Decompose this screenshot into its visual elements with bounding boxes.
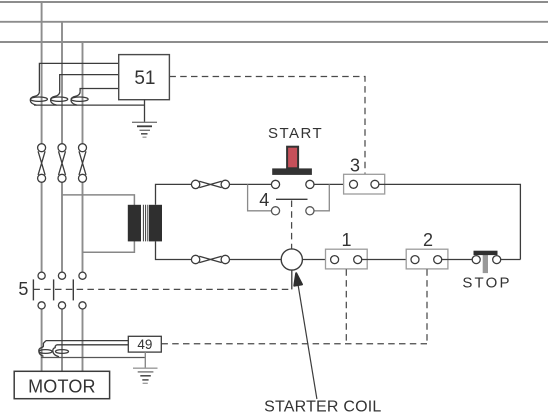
bus A (top horizontal bus)	[0, 1, 548, 3]
contact 3 terminals	[350, 180, 379, 188]
contact 4 branch wiring (seal-in)	[248, 184, 330, 210]
pushbutton STOP cap	[474, 251, 498, 255]
wire (dashed, contact 1 to relay 49 trip link)	[345, 269, 347, 343]
wire (control transformer primary lead, top)	[62, 195, 134, 205]
wire	[314, 183, 349, 185]
CT2 secondary lead to relay 51	[60, 75, 119, 92]
phase B conductor	[61, 22, 63, 372]
CT2 (current transformer, phase B)	[51, 92, 68, 105]
CT3 secondary lead to relay 51	[80, 89, 119, 92]
wire (dashed, contact 2 to relay 49 trip link)	[426, 269, 428, 343]
contact 2 box	[406, 249, 448, 269]
contact 2 terminals	[411, 256, 442, 264]
wire (annotation arrow shaft)	[298, 285, 317, 399]
svg-text:51: 51	[134, 68, 155, 89]
pushbutton STOP contacts	[472, 256, 501, 264]
disconnect contact 5 phase B	[54, 272, 66, 309]
svg-text:1: 1	[341, 230, 351, 250]
wire (dashed trip link from relay 51 to contact 3)	[169, 77, 365, 174]
wire (CT4 lead to relay 49)	[46, 340, 128, 342]
fuse F1 (top control wire, circle-X-circle)	[191, 180, 229, 188]
breaker contact phase C	[79, 144, 87, 183]
CT3 (current transformer, phase C)	[71, 92, 88, 105]
svg-text:5: 5	[18, 279, 28, 299]
phase C conductor	[82, 42, 84, 371]
wire (secondary top lead to control bus)	[156, 184, 192, 204]
ground (below relay 51)	[132, 100, 157, 138]
wire	[230, 183, 272, 185]
phase A conductor	[41, 2, 43, 371]
wire (dashed link from contacts 5 to coil return)	[33, 288, 291, 290]
svg-text:3: 3	[350, 155, 360, 175]
disconnect contact 5 phase A	[33, 272, 45, 309]
bus B	[0, 21, 548, 23]
svg-text:STARTER COIL: STARTER COIL	[264, 399, 381, 413]
relay U1 "51" (overcurrent relay)	[119, 55, 170, 100]
svg-text:MOTOR: MOTOR	[28, 377, 96, 397]
contact 4 movable bar	[276, 198, 308, 200]
pushbutton START plunger (red)	[287, 147, 298, 169]
svg-text:STOP: STOP	[462, 275, 511, 292]
contact 1 box	[326, 249, 368, 269]
relay U2 "49" (thermal relay)	[128, 336, 161, 352]
wire (coil bottom lead)	[291, 270, 293, 289]
wire (control transformer primary lead, bottom)	[83, 241, 135, 252]
wire (top bus to right side down-comer)	[379, 184, 521, 259]
transformer T1 primary winding	[128, 205, 141, 242]
ground (below relay 49)	[133, 352, 158, 383]
MOTOR box	[14, 371, 109, 398]
annotation arrowhead	[294, 273, 302, 286]
bus C	[0, 41, 548, 43]
pushbutton STOP stem	[483, 255, 488, 273]
contact 4 terminals	[271, 207, 314, 215]
CT4 (current transformer, phase A bottom)	[39, 341, 52, 357]
svg-text:START: START	[268, 125, 323, 142]
wire (secondary bottom lead to coil bus)	[156, 241, 192, 259]
wire (CT common return to ground lead)	[34, 104, 145, 106]
wire (CT5 lead to relay 49)	[57, 344, 129, 346]
transformer T1 core	[143, 205, 147, 242]
wire	[362, 259, 411, 261]
wire (dashed, relay 49 output)	[161, 343, 427, 345]
svg-text:4: 4	[259, 190, 269, 210]
svg-text:49: 49	[137, 337, 152, 352]
wire	[442, 259, 472, 261]
wire (fuse to coil bus)	[230, 259, 282, 261]
transformer T1 secondary winding	[149, 205, 162, 242]
pushbutton START contacts	[271, 180, 314, 188]
CT1 secondary lead to relay 51	[39, 63, 118, 91]
wire (dashed link contact 4 to starter coil)	[291, 201, 293, 249]
fuse F2 (bottom control wire, circle-X-circle)	[191, 255, 229, 263]
wire (bottom CT common return to ground lead)	[41, 357, 145, 359]
wire	[302, 259, 330, 261]
CT5 (current transformer, phase B bottom)	[53, 345, 69, 357]
svg-text:2: 2	[423, 230, 433, 250]
pushbutton START cap	[272, 168, 312, 175]
breaker contact phase A (circle-X-circle)	[38, 144, 46, 183]
contact 1 terminals	[331, 256, 362, 264]
wire	[501, 259, 521, 261]
CT1 (current transformer, phase A)	[30, 92, 47, 105]
contact 3 box	[344, 174, 385, 194]
disconnect contact 5 phase C	[73, 272, 86, 309]
breaker contact phase B	[58, 144, 66, 183]
starter coil M	[281, 249, 302, 270]
